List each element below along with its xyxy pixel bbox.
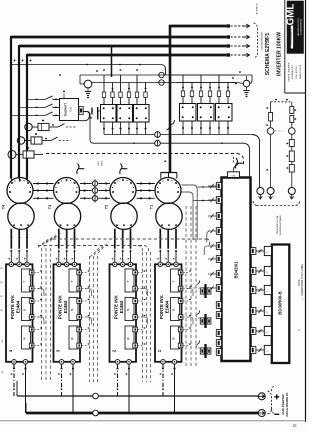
svg-text:TELERUTT.: TELERUTT. [64,102,68,116]
junction circle JA [159,72,164,77]
rectifier module D6 [216,104,233,122]
svg-text:T: T [171,280,175,282]
svg-text:T1: T1 [150,205,154,209]
page number 29 [293,424,297,428]
CML logo [285,1,303,53]
svg-text:S: S [126,309,130,311]
cable bundle verticals [42,206,197,382]
bottom bus junctions [93,393,99,416]
supply label [282,392,289,416]
svg-text:BD42I01: BD42I01 [234,261,239,279]
svg-text:ALLA PAG.28: ALLA PAG.28 [256,4,259,15]
schema title text [265,32,282,76]
svg-text:J: J [267,332,269,333]
junction circle J2 [155,140,161,147]
aux wire C [92,82,238,84]
flat cable connector CV3 [197,341,211,359]
svg-text:E1484: E1484 [63,300,68,313]
chain RA lower [266,134,270,187]
svg-text:NOTA :: NOTA : [298,278,301,286]
BD42I01 left pin bends [204,231,216,255]
left margin labels [2,267,5,374]
DC bus line 3 [19,45,227,48]
rectifier module D4 [180,104,197,122]
snubber droppers group 2 [170,75,236,104]
bus drop wire thick right [169,25,172,173]
DC bus line 2 [11,36,227,39]
svg-text:PONTE INV.: PONTE INV. [10,295,15,319]
fuse F2 [17,137,70,144]
label above T3 [98,160,104,166]
BD30R00-B pins [264,246,271,354]
rectifier DC bus lower [97,143,250,178]
measurement chain top dashes [271,99,292,102]
primary sense wires to board [181,185,216,240]
svg-text:J: J [267,351,269,352]
nota text [298,263,304,300]
cable bundle bend diagonals [38,232,109,257]
bus output dashed bracket [254,23,258,58]
svg-text:E1484: E1484 [164,300,169,313]
resistor chain RB [290,102,296,128]
earth point right [235,76,250,97]
measure connector M2 [267,188,274,200]
bus drop wire R [10,36,12,179]
interface board BD30R00-B [272,245,290,364]
svg-text:S: S [70,309,74,311]
module pin stub dashes [34,270,193,345]
page bottom scan line [0,420,306,422]
svg-text:T2: T2 [105,205,109,209]
svg-text:T3: T3 [48,205,52,209]
title block info text [288,62,302,81]
junction circle MA [267,128,283,135]
DC bus line 4 [27,54,227,57]
svg-text:29: 29 [293,424,297,428]
bottom wire labels [11,373,173,389]
svg-text:E1484: E1484 [119,300,124,313]
flex mark on feeder [167,120,175,130]
svg-text:DATA: 30/10/98: DATA: 30/10/98 [299,64,302,79]
supply connector minus [258,410,279,417]
svg-text:DALLE SBARRE DC: DALLE SBARRE DC [286,392,289,416]
svg-text:GML: GML [285,4,296,26]
svg-text:E1484: E1484 [15,300,20,313]
flex mark 1 [77,164,85,175]
module output wires [13,364,176,413]
flat cable connector CV1 [197,281,211,299]
rectifier module D5 [198,104,215,122]
contactor K1 [11,91,79,121]
dashed cable run top [46,154,244,166]
svg-text:FILE: E2756-1: FILE: E2756-1 [296,65,298,79]
svg-text:INVERTER 100KW: INVERTER 100KW [276,32,282,76]
contactor aux contact [79,107,101,121]
rectifier DC bus upper [103,121,259,188]
junction circle J1 [155,131,161,138]
transformer T1 [150,178,183,264]
cable bends to connectors [191,284,201,348]
svg-text:T: T [70,280,74,282]
drawing border right edge [305,0,307,422]
transformer T4 [2,178,35,264]
resistor chain RA [266,102,272,128]
cable horizontal run A [53,239,210,246]
aux wire B [59,70,252,83]
inverter module 2 [110,258,138,364]
svg-text:J: J [267,252,269,253]
svg-text:INVERTER AI TRASD.: INVERTER AI TRASD. [279,214,282,235]
inverter module 3 [54,258,82,364]
control board BD42I01 [222,178,251,362]
svg-text:S: S [171,309,175,311]
rectifier module D2 [117,105,133,123]
svg-text:J: J [267,272,269,273]
svg-text:PONTE INV.: PONTE INV. [114,295,119,319]
flex mark 2 [120,164,128,175]
measure labels [276,214,282,235]
svg-text:BD30R00-B: BD30R00-B [278,291,283,314]
snubber droppers group 1 [102,69,147,104]
fuse F3 [8,151,43,159]
svg-text:REG.: REG. [98,160,100,165]
fuse F1 [25,123,77,130]
bus phase labels [14,60,32,62]
measure connector M3 [288,188,295,200]
BD42I01 right pins [251,248,265,354]
svg-text:J: J [267,291,269,292]
bus output label [261,32,268,50]
BD42I01 top pin [228,157,240,178]
dc return wire from contactor [83,112,96,144]
bottom bus positive [17,381,258,396]
chain RB lower [286,134,294,187]
inverter module 4 [6,258,34,364]
svg-text:S: S [22,309,26,311]
aux wire A [11,64,166,75]
svg-text:SCHEMA 'TIPO': SCHEMA 'TIPO' [291,64,294,79]
supply connector plus [258,393,279,400]
earth point left [80,75,92,98]
label J1 [299,328,301,331]
svg-text:DISEGN. INVERTER: DISEGN. INVERTER [288,62,290,81]
svg-text:USCITA INVERTER: USCITA INVERTER [261,32,264,50]
measure connector M1 [257,188,264,200]
svg-text:PONTE INV.: PONTE INV. [159,295,164,319]
supply dashed bracket [268,386,276,415]
svg-text:ALIM. INVERTER: ALIM. INVERTER [282,394,285,414]
bottom bus negative [26,403,258,413]
bus drop wire T [26,54,28,179]
measure dashed bracket [253,201,300,206]
bus drop wire S [18,45,20,179]
inverter module 1 [155,258,183,364]
svg-text:J: J [267,312,269,313]
svg-text:PONTE INV.: PONTE INV. [58,295,63,319]
flat cable connector CV2 [197,311,211,329]
svg-text:K1M: K1M [70,107,73,112]
bus drop wire mid [111,45,113,77]
transformer T2 [105,178,138,264]
svg-text:— : CONNESSIONI A FLAT CABLE: — : CONNESSIONI A FLAT CABLE [301,263,304,300]
bus output terminals [227,24,250,57]
fuse labels [27,120,44,149]
flex mark 3 [235,158,243,169]
svg-text:T: T [126,280,130,282]
svg-text:ALLE SBARRE: ALLE SBARRE [265,34,268,48]
BD42I01 left pins [208,183,222,356]
T1 primary feed fork [161,161,178,179]
primary links T3-T2 disconnect [80,179,110,202]
junction circle MB [289,128,296,135]
svg-text:TENS.: TENS. [102,160,104,166]
DC bus line 1 [169,25,227,28]
svg-text:T: T [22,280,26,282]
title block frame [285,0,306,93]
rectifier module D1 [101,105,117,123]
transformer T3 [48,178,81,264]
cable horizontal run B [38,246,149,253]
junction circle JB [159,80,164,85]
primary links T4-T3 [33,183,54,200]
primary links T2-T1 [137,183,155,200]
corner note text [256,4,259,15]
svg-text:TENSIONE USCITA: TENSIONE USCITA [276,215,279,234]
rectifier module D3 [134,105,150,123]
